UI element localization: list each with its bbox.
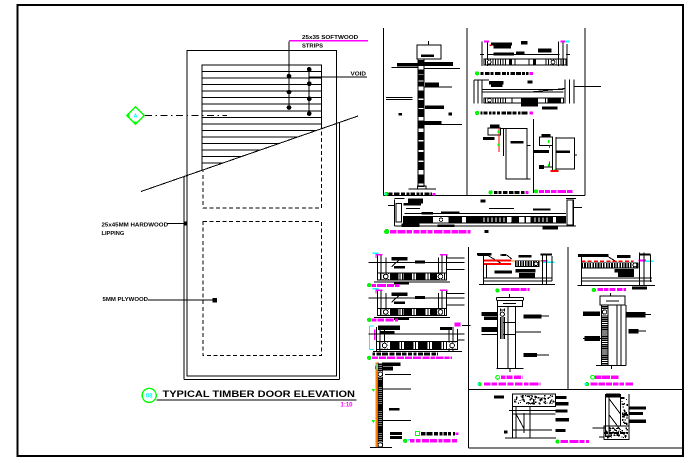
- detail R1 bottom lines: [582, 277, 653, 279]
- detail R1 top bars: [578, 254, 609, 257]
- svg-text:TYPICAL TIMBER DOOR ELEVATION: TYPICAL TIMBER DOOR ELEVATION: [163, 389, 356, 399]
- title bubble 08: [142, 388, 156, 402]
- detail M4 bottom fixings: [539, 165, 544, 169]
- sill detail top bars: [392, 292, 408, 295]
- detail M1 mid bars: [494, 271, 512, 274]
- detail M3 red line: [498, 128, 500, 152]
- detail BR bottom marks: [604, 432, 608, 434]
- detail V1 base line with notch: [409, 188, 436, 190]
- detail L3 left post: [376, 327, 378, 352]
- local divider between M3 and M4: [533, 119, 535, 193]
- detail H1 lintel lines: [488, 53, 560, 55]
- detail L2 title: [368, 318, 371, 321]
- detail BM frame below: [509, 410, 556, 412]
- divider A vertical: [382, 28, 384, 195]
- sill detail top bars: [392, 257, 408, 260]
- detail V1 hatched column: [418, 59, 424, 187]
- detail L3 top bars: [378, 326, 400, 330]
- detail M1 magenta and cyan marks: [541, 260, 548, 262]
- detail H2 lintel lines: [482, 89, 563, 91]
- detail H2 title: [476, 111, 479, 114]
- detail M3 left bar: [483, 137, 495, 140]
- detail M2 head box: [498, 301, 523, 307]
- svg-text:LIPPING: LIPPING: [102, 231, 125, 237]
- detail BR vertical members: [605, 394, 607, 437]
- detail L4 orange line: [375, 363, 377, 448]
- detail M4 head: [541, 134, 550, 137]
- detail W1 right end block: [573, 199, 575, 226]
- detail R1 title: [592, 288, 596, 292]
- detail H1 left jamb: [481, 42, 483, 66]
- detail R2 right members: [616, 305, 618, 365]
- detail M1 hatch block: [515, 260, 540, 267]
- detail W1 bottom line: [394, 225, 576, 227]
- detail M3 title: [489, 191, 492, 194]
- softwood strip lined panel: [202, 65, 322, 171]
- horizontal divider under top details: [383, 194, 585, 196]
- detail H1 hatch band: [484, 59, 566, 65]
- divider B vertical: [466, 28, 468, 195]
- detail L3 right post: [448, 327, 450, 352]
- svg-text:08: 08: [146, 394, 153, 400]
- detail V1 right leader bars: [424, 62, 453, 66]
- detail W1 left end block: [393, 199, 395, 226]
- detail M2 vertical members: [497, 306, 499, 368]
- sill detail base bar: [374, 316, 450, 318]
- upper dashed panel rectangle: [203, 65, 322, 208]
- detail R2 left bars: [583, 312, 600, 317]
- detail BR concrete strip: [621, 397, 628, 425]
- detail H2 left jamb: [473, 80, 475, 104]
- sill detail left post: [377, 291, 379, 316]
- detail H2 right jamb: [564, 80, 566, 104]
- detail H2 top profile bars: [489, 81, 504, 84]
- detail BR base block: [604, 426, 629, 439]
- detail W1 hatch band (mostly dark): [403, 216, 566, 223]
- detail R2 titles: [591, 375, 595, 379]
- detail H1 top profile bars: [491, 42, 512, 45]
- detail R1 mid bars: [615, 269, 635, 272]
- detail BM right leader bars: [556, 396, 567, 399]
- detail V1 left leader bars: [397, 63, 418, 66]
- detail R2 right bars: [626, 312, 645, 317]
- horizontal divider above bottom band: [468, 388, 683, 390]
- detail M1 top bars: [477, 253, 492, 255]
- detail M4 vertical member: [551, 137, 553, 171]
- detail M2 inner rails: [503, 322, 516, 324]
- lower dashed panel rectangle: [203, 222, 321, 356]
- detail V1 title: [385, 192, 388, 195]
- detail BR top bar: [606, 394, 620, 398]
- detail L4 right titles: [415, 432, 419, 436]
- detail W1 top profile bars: [408, 199, 423, 204]
- detail R1 magenta cyan marks: [639, 260, 647, 262]
- detail M1 orange line: [511, 260, 541, 262]
- detail L4 ladder column: [378, 363, 383, 448]
- sill detail cyan/magenta corner marks: [373, 288, 379, 289]
- detail BM concrete band: [513, 394, 556, 406]
- detail R1 right block: [638, 253, 640, 286]
- svg-text:25x35 SOFTWOOD: 25x35 SOFTWOOD: [302, 35, 358, 41]
- detail M2 left bars: [482, 312, 498, 316]
- VOID label and leader: [309, 76, 367, 78]
- svg-text:5MM PLYWOOD: 5MM PLYWOOD: [103, 297, 149, 303]
- door frame right line below break: [338, 123, 340, 379]
- sill detail hatch band: [378, 273, 447, 280]
- detail R1 red dashed line: [582, 260, 634, 262]
- detail R2 head box: [600, 296, 625, 305]
- sill detail left post: [377, 256, 379, 281]
- svg-text:1:10: 1:10: [341, 403, 354, 409]
- section marker diamond A: [127, 107, 145, 125]
- door frame bottom line: [184, 379, 339, 381]
- title underline: [157, 399, 357, 401]
- detail M4 right rectangle: [556, 138, 575, 169]
- sill detail leaders: [369, 261, 465, 263]
- detail M2 ladder: [500, 309, 504, 340]
- detail M2 head line: [496, 297, 523, 299]
- svg-text:STRIPS: STRIPS: [302, 44, 323, 50]
- strip leader line 2 with dots: [308, 69, 310, 113]
- detail R2 ladder column: [601, 305, 608, 365]
- detail M1 right block: [542, 255, 544, 285]
- detail M1 hook leaders: [478, 256, 503, 265]
- divider B2 vertical bottom half: [467, 247, 469, 448]
- detail M2 right bars: [524, 314, 542, 318]
- detail M2 titles: [496, 376, 500, 380]
- sill detail right post: [438, 258, 440, 273]
- detail M2 bottom: [496, 368, 523, 370]
- section dash-dot line: [145, 115, 227, 117]
- detail H2 hatch band: [484, 98, 563, 103]
- detail BR right leader bars: [629, 406, 646, 409]
- detail H1 mid profile bars: [494, 52, 514, 55]
- detail BM bottom line: [505, 437, 556, 439]
- sill detail hatch band: [378, 308, 447, 315]
- detail M4 left bar: [534, 150, 549, 153]
- bottom band lower border: [468, 447, 683, 449]
- svg-text:25x45MM HARDWOOD: 25x45MM HARDWOOD: [102, 223, 169, 229]
- detail L3 leaders: [369, 333, 465, 335]
- detail M1 left edge: [482, 255, 484, 284]
- detail L4 leaders: [385, 374, 411, 376]
- divider C2 vertical bottom half: [567, 247, 569, 389]
- detail W1 rails: [405, 213, 566, 215]
- sill detail base bar: [374, 281, 450, 283]
- detail BM left marker: [494, 395, 504, 398]
- door frame left line below break: [183, 177, 185, 380]
- detail H2 centre block: [521, 98, 538, 107]
- detail L4 top bars: [383, 363, 401, 366]
- strip leader line 1 with dots: [288, 42, 290, 109]
- detail R1 left edge: [581, 256, 583, 286]
- svg-text:A: A: [134, 114, 138, 120]
- leader tick crossing divider B2: [462, 325, 471, 327]
- detail M1 red bars: [483, 260, 511, 262]
- detail M4 title: [534, 190, 537, 193]
- sill detail cyan/magenta corner marks: [373, 253, 379, 254]
- sill detail right post: [438, 293, 440, 308]
- sill detail leaders: [369, 297, 465, 299]
- detail M3 head box: [490, 125, 499, 128]
- divider C vertical: [584, 28, 586, 195]
- detail M3 big rectangle: [506, 129, 527, 179]
- detail H1 title: [476, 72, 479, 75]
- detail BR left leader: [592, 427, 606, 429]
- magenta underline of strips label: [289, 40, 368, 42]
- detail V1 top box: [417, 45, 441, 59]
- door leaf rectangle: [187, 50, 336, 376]
- detail L3 cyan bracket: [369, 326, 371, 350]
- detail H1 right jamb: [558, 42, 560, 66]
- detail R1 hatch block: [582, 262, 639, 268]
- detail L3 hatch band: [377, 341, 458, 349]
- detail BM title: [556, 440, 559, 443]
- diagonal break line: [141, 116, 358, 192]
- detail L1 title: [368, 284, 371, 287]
- detail R2 bottom: [596, 364, 626, 366]
- svg-text:VOID: VOID: [351, 71, 367, 77]
- detail L3 title: [373, 352, 376, 355]
- detail L3 magenta marks: [374, 329, 376, 340]
- detail L4 circles: [378, 371, 383, 377]
- detail W1 title: [385, 229, 389, 233]
- detail M1 title: [496, 289, 500, 293]
- detail M1 bottom lines: [483, 277, 552, 279]
